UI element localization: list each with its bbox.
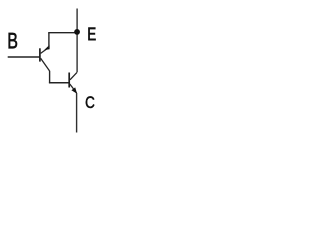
label B bbox=[9, 33, 18, 48]
wire: Q1 emitter vertical riser bbox=[48, 33, 50, 48]
transistor Q2 emitter arrowhead (points away from bar, NPN) bbox=[71, 87, 77, 93]
transistor Q1 collector diagonal limb bbox=[41, 58, 50, 71]
transistor Q2 (NPN): base bar bbox=[68, 73, 70, 88]
node E junction dot bbox=[74, 29, 80, 35]
transistor Q1 emitter diagonal limb bbox=[41, 47, 49, 53]
transistor Q1 emitter arrowhead (points toward bar, PNP) bbox=[44, 45, 49, 50]
transistor Q2 emitter diagonal limb bbox=[70, 84, 77, 93]
wire: E terminal lead (top) bbox=[76, 9, 78, 73]
wire: C terminal lead (bottom) bbox=[76, 93, 78, 133]
label C bbox=[86, 96, 94, 108]
transistor Q2 collector diagonal limb bbox=[70, 72, 77, 79]
label E bbox=[88, 28, 95, 41]
wire: horizontal into Q2 base bbox=[49, 82, 69, 84]
wire: vertical drop Q1 collector to Q2 base level bbox=[49, 71, 51, 83]
transistor Q1 (PNP): base bar bbox=[39, 48, 41, 61]
wire: Q1 emitter horizontal to node E bbox=[48, 32, 76, 34]
wire: B input to Q1 base bbox=[8, 56, 40, 58]
